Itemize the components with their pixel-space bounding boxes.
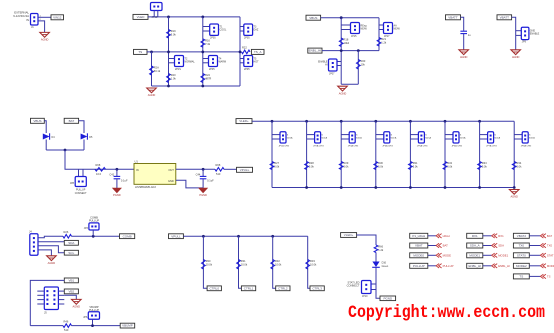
junction array top 1	[271, 120, 274, 123]
diode D4	[43, 133, 55, 139]
node netlabel J1	[341, 233, 357, 238]
wire R46 to netlabel	[72, 325, 121, 327]
wire network column 1	[203, 236, 207, 288]
svg-text:PULLUP: PULLUP	[89, 219, 99, 223]
svg-text:R30: R30	[378, 161, 383, 165]
svg-text:C44: C44	[196, 173, 201, 177]
svg-text:JP7A CHG: JP7A CHG	[486, 144, 497, 147]
svg-text:JP07: JP07	[329, 73, 335, 76]
node netlabel G2	[64, 240, 78, 245]
svg-text:50mA: 50mA	[391, 137, 397, 140]
junction A8	[201, 85, 204, 88]
svg-text:R30: R30	[206, 259, 211, 263]
diode D5	[81, 133, 93, 139]
svg-text:SDA_A: SDA_A	[470, 244, 480, 248]
svg-text:R19: R19	[171, 29, 176, 33]
svg-text:R32: R32	[447, 161, 452, 165]
svg-text:VLED+: VLED+	[239, 119, 249, 123]
svg-text:COMB: COMB	[123, 234, 132, 238]
svg-text:JP8: JP8	[70, 182, 75, 185]
junction B3	[357, 49, 360, 52]
wire array column 6	[444, 121, 446, 187]
svg-text:MODE: MODE	[547, 264, 554, 268]
transistor JP4A	[376, 134, 384, 136]
junction array gnd	[513, 186, 516, 189]
svg-text:MODE0: MODE0	[413, 253, 424, 257]
svg-text:2P05: 2P05	[244, 37, 250, 40]
svg-text:Copyright:www.eccn.com: Copyright:www.eccn.com	[348, 303, 545, 323]
junction A4	[167, 51, 170, 54]
node port col2 row1	[467, 233, 483, 238]
svg-text:10.0k: 10.0k	[310, 263, 317, 267]
svg-text:R26: R26	[64, 230, 69, 234]
svg-text:TX0: TX0	[547, 244, 553, 248]
wire network bus	[183, 235, 307, 237]
svg-text:R28: R28	[309, 161, 314, 165]
transistor JP5A	[410, 134, 418, 136]
svg-text:VBATT: VBATT	[448, 15, 458, 19]
svg-text:JP6: JP6	[83, 316, 88, 319]
wire bottom bus A	[152, 85, 241, 87]
wire array column 4	[375, 121, 377, 187]
wire top bus B	[321, 17, 379, 19]
node netlabel I4	[310, 286, 324, 291]
svg-text:PULLUP: PULLUP	[443, 264, 454, 268]
resistor R22	[242, 46, 251, 54]
svg-text:TX0: TX0	[519, 244, 525, 248]
junction array top 7	[478, 120, 481, 123]
svg-text:OUT: OUT	[168, 168, 174, 172]
svg-text:2P05: 2P05	[210, 37, 216, 40]
wire vertical A left x=151.5	[151, 52, 153, 86]
svg-text:TS: TS	[519, 275, 523, 279]
wire JP12 stubs	[153, 11, 155, 17]
junction A6	[239, 51, 242, 54]
svg-text:1.2k: 1.2k	[378, 248, 384, 252]
svg-text:CTRL1: CTRL1	[244, 286, 254, 290]
wire H1 around left	[30, 280, 64, 325]
transistor T2 NORMAL	[169, 58, 175, 60]
resistor R20	[167, 73, 177, 82]
wire J5 right pins	[58, 290, 64, 292]
svg-text:VBUS: VBUS	[33, 119, 41, 123]
svg-text:AGND: AGND	[48, 261, 56, 265]
svg-text:R66: R66	[378, 245, 383, 249]
svg-text:510: 510	[216, 172, 221, 176]
wire R26 to netlabel	[72, 235, 120, 237]
svg-text:10k4: 10k4	[344, 41, 350, 45]
svg-text:VBAT2: VBAT2	[517, 234, 527, 238]
junction D	[64, 149, 67, 152]
svg-text:VBAT: VBAT	[415, 244, 423, 248]
svg-text:JP9: JP9	[522, 41, 527, 44]
svg-text:R33: R33	[482, 161, 487, 165]
svg-text:JP2A CHG: JP2A CHG	[313, 144, 324, 147]
svg-text:AGND: AGND	[148, 93, 156, 97]
svg-text:CTRL0: CTRL0	[209, 286, 219, 290]
svg-text:TS: TS	[138, 50, 142, 54]
svg-text:JP4A CHG: JP4A CHG	[382, 144, 393, 147]
wire row2 bus A	[147, 51, 240, 53]
svg-text:COOL: COOL	[220, 29, 227, 32]
svg-text:HOT: HOT	[254, 61, 260, 64]
capacitor C9 1u	[460, 31, 471, 37]
transistor Q2 JP17	[379, 24, 384, 26]
svg-text:ENABLE: ENABLE	[530, 33, 540, 36]
pin numbers J1	[40, 15, 42, 21]
transistor T3	[240, 26, 244, 28]
svg-text:R31: R31	[413, 161, 418, 165]
wire array top bus	[252, 120, 514, 122]
junction B1	[340, 16, 343, 19]
svg-text:TS_A: TS_A	[254, 50, 262, 54]
wire array column 2	[306, 121, 308, 187]
junction array bottom 7	[478, 186, 481, 189]
svg-text:CTRL3: CTRL3	[312, 286, 322, 290]
junction array top 5	[409, 120, 412, 123]
capacitor C44	[202, 169, 204, 176]
svg-text:VIN12: VIN12	[53, 15, 62, 19]
svg-text:5.0k: 5.0k	[413, 165, 419, 169]
svg-text:NORMAL: NORMAL	[185, 61, 196, 64]
wire array bottom bus	[272, 187, 514, 189]
svg-text:5.0k: 5.0k	[309, 165, 315, 169]
svg-text:RX1: RX1	[498, 234, 504, 238]
svg-text:50mA: 50mA	[321, 137, 327, 140]
node netlabel I3	[276, 286, 290, 291]
svg-text:50mA: 50mA	[425, 137, 431, 140]
junction network 2	[237, 235, 240, 238]
node port col1 row4	[410, 263, 428, 268]
junction array bottom 2	[305, 186, 308, 189]
svg-text:PGND: PGND	[383, 296, 393, 300]
svg-text:0.1uF: 0.1uF	[121, 178, 128, 182]
junction array bottom 5	[409, 186, 412, 189]
node port col3 row2	[513, 243, 529, 248]
node VLED netlabel A1	[133, 14, 148, 19]
svg-text:50mA: 50mA	[287, 137, 293, 140]
svg-text:R29: R29	[344, 161, 349, 165]
node BAT netlabel D2	[64, 118, 78, 123]
svg-text:SDA: SDA	[68, 241, 74, 245]
svg-text:AGND: AGND	[339, 91, 347, 95]
svg-text:DAZ: DAZ	[254, 29, 259, 32]
resistor R23	[357, 59, 366, 69]
node netlabel I1	[207, 286, 221, 291]
wire regulator output	[176, 168, 215, 170]
node netlabel I2	[241, 286, 255, 291]
svg-text:JP1A CHG: JP1A CHG	[279, 144, 290, 147]
resistor R21	[377, 37, 387, 46]
junction array bottom 4	[374, 186, 377, 189]
svg-text:BAT: BAT	[443, 244, 449, 248]
svg-text:R23: R23	[361, 59, 366, 63]
svg-text:STAT0: STAT0	[517, 253, 526, 257]
transistor Q3 ENABLE JP07	[337, 61, 341, 63]
svg-text:5.0k: 5.0k	[171, 33, 177, 37]
svg-text:MODE: MODE	[443, 254, 452, 258]
wire R66 to LED	[375, 253, 377, 262]
transistor JP8A	[514, 134, 522, 136]
wire J4 pin2	[38, 241, 64, 243]
svg-text:2P1S: 2P1S	[175, 68, 181, 71]
svg-text:Green: Green	[382, 265, 389, 268]
svg-text:5.0k: 5.0k	[274, 165, 280, 169]
node port col1 row1	[410, 233, 428, 238]
resistor R19	[167, 29, 177, 38]
wire network column 4	[308, 236, 310, 288]
svg-text:JP15: JP15	[351, 35, 357, 38]
wire JP6 stub	[92, 319, 94, 325]
wire J4 pin3	[38, 246, 64, 253]
wire LED lower	[376, 267, 380, 298]
node VLED netlabel F	[236, 119, 252, 124]
wire down to regulator input	[65, 150, 134, 169]
junction array bottom 3	[340, 186, 343, 189]
svg-text:487R: 487R	[205, 77, 211, 81]
junction JP6	[91, 324, 94, 327]
node netlabel G1	[120, 234, 135, 239]
svg-text:1.0k: 1.0k	[171, 77, 177, 81]
node port col1 row3	[410, 253, 428, 258]
wire J4 pin4 to gnd	[38, 250, 51, 256]
svg-text:AGND: AGND	[512, 55, 520, 59]
svg-text:HIGH: HIGH	[443, 234, 450, 238]
svg-text:0.1uF: 0.1uF	[207, 178, 214, 182]
ground AGND block B	[338, 86, 348, 95]
node VPULL netlabel E	[237, 167, 253, 172]
transistor JP6A	[445, 134, 453, 136]
svg-text:PULLUP: PULLUP	[413, 264, 425, 268]
svg-text:R27: R27	[274, 161, 279, 165]
transistor T1 COOL	[203, 26, 210, 28]
svg-text:CONNECT: CONNECT	[347, 284, 360, 288]
ground AGND J1	[40, 32, 50, 41]
node port col2 row2	[467, 243, 483, 248]
svg-text:SCL: SCL	[68, 251, 74, 255]
wire J1 pin1 to VIN net	[38, 16, 51, 18]
resistor R33	[478, 161, 488, 169]
svg-text:CTRL2: CTRL2	[278, 286, 288, 290]
wire to output netlabel	[224, 168, 237, 170]
svg-text:VLED: VLED	[137, 15, 146, 19]
junction C44	[202, 168, 205, 171]
svg-text:R46: R46	[64, 319, 69, 323]
junction A7	[167, 85, 170, 88]
junction JP3	[92, 235, 95, 238]
svg-text:50mA: 50mA	[460, 137, 466, 140]
ground AGND array	[509, 190, 519, 199]
transistor T4 WARM	[203, 58, 209, 60]
junction B2	[340, 49, 343, 52]
wire LED column	[357, 235, 376, 245]
svg-text:R32: R32	[275, 259, 280, 263]
wire diode D4 branch	[44, 121, 46, 133]
connector JP10 STAT LED	[371, 283, 376, 285]
svg-text:JP10: JP10	[362, 295, 368, 298]
svg-text:R08: R08	[216, 163, 221, 167]
resistor R08 output	[215, 163, 224, 176]
node port col3 row5	[513, 274, 529, 279]
svg-text:50mA: 50mA	[529, 137, 535, 140]
wire vertical A x=168.5	[168, 17, 170, 86]
junction A3	[150, 51, 153, 54]
node VBUS netlabel B1	[306, 15, 321, 20]
svg-text:JP5A CHG: JP5A CHG	[417, 144, 428, 147]
svg-text:MODE2: MODE2	[516, 264, 527, 268]
resistor R34	[512, 161, 522, 169]
svg-text:BAT: BAT	[69, 119, 75, 123]
node netlabel A3 right	[251, 49, 264, 54]
svg-text:R20: R20	[171, 73, 176, 77]
svg-text:ENBL_HI: ENBL_HI	[498, 264, 510, 268]
ground AGND C1	[459, 50, 469, 59]
svg-text:LP2985AIM5-ADJ: LP2985AIM5-ADJ	[135, 185, 156, 189]
transistor JP1A	[272, 134, 280, 136]
svg-text:IN: IN	[26, 18, 29, 22]
node netlabel H3	[120, 323, 135, 328]
connector JP9 GND ENABLE	[516, 30, 522, 32]
svg-text:ENBL_HI: ENBL_HI	[468, 264, 481, 268]
svg-text:P1_HIGH: P1_HIGH	[412, 234, 425, 238]
connector JP8 PULLUP CONNECT	[78, 169, 80, 176]
node netlabel H2	[64, 289, 78, 294]
resistor R18	[339, 38, 349, 47]
wire C2	[512, 17, 516, 50]
junction network 3	[271, 235, 274, 238]
resistor R32	[271, 259, 282, 269]
transistor T5 HOT	[240, 58, 244, 60]
connector J5 2x4	[44, 287, 58, 310]
node port col2 row3	[467, 253, 483, 258]
wire C1	[461, 17, 464, 31]
svg-text:AGND: AGND	[460, 55, 468, 59]
wire vertical A x=240	[239, 17, 241, 86]
resistor R28	[305, 161, 315, 169]
svg-text:JP6A CHG: JP6A CHG	[452, 144, 463, 147]
svg-text:VB2: VB2	[69, 290, 75, 294]
capacitor C41	[116, 169, 118, 176]
svg-text:VLED+: VLED+	[344, 233, 354, 237]
svg-text:50mA: 50mA	[356, 137, 362, 140]
ground PGND C41	[113, 188, 122, 197]
resistor R30	[374, 161, 384, 169]
wire diode D5 lower	[83, 140, 85, 151]
power connector JP12	[151, 3, 163, 11]
resistor R66	[374, 245, 384, 253]
svg-text:PGND: PGND	[113, 193, 121, 197]
transistor JP2A	[307, 134, 315, 136]
svg-text:AGND: AGND	[510, 195, 518, 199]
wire vertical A x=202.8	[202, 17, 204, 86]
node port col3 row1	[513, 233, 529, 238]
node ENBL netlabel B2	[308, 48, 322, 53]
wire C1 lower	[463, 34, 465, 50]
svg-text:AGND: AGND	[41, 38, 49, 42]
svg-text:510: 510	[64, 328, 69, 332]
svg-text:5.0k: 5.0k	[344, 165, 350, 169]
node VBUS netlabel D1	[31, 118, 45, 123]
wire vertical B R23 column	[357, 51, 359, 85]
node VBATT netlabel C2	[497, 15, 512, 20]
svg-text:R18: R18	[344, 38, 349, 42]
svg-text:2P05: 2P05	[209, 68, 215, 71]
wire array column 3	[340, 121, 342, 187]
svg-text:PGND: PGND	[199, 193, 207, 197]
svg-text:7.4k: 7.4k	[205, 42, 211, 46]
svg-text:JP8A CHG: JP8A CHG	[521, 144, 532, 147]
junction array top 4	[374, 120, 377, 123]
resistor R32	[443, 161, 453, 169]
resistor R30	[202, 259, 213, 269]
resistor R31	[237, 259, 248, 269]
svg-text:R2A: R2A	[154, 66, 159, 70]
wire top bus A	[148, 16, 240, 18]
wire regulator gnd pin	[176, 180, 203, 188]
svg-text:TS: TS	[547, 275, 551, 279]
node port col3 row3	[513, 253, 529, 258]
connector JP3 COMB PULLUP	[89, 215, 99, 222]
svg-text:10.0k: 10.0k	[275, 263, 282, 267]
node netlabel J2	[380, 296, 396, 301]
ground AGND C2	[511, 50, 521, 59]
svg-text:VBUS: VBUS	[309, 16, 317, 20]
svg-text:2P05: 2P05	[244, 68, 250, 71]
wire J4 pin1 with resistor R26	[38, 236, 63, 237]
svg-text:HI: HI	[325, 64, 328, 67]
node VBATT netlabel C1	[446, 15, 461, 20]
ground AGND J4	[47, 256, 57, 265]
resistor R31	[409, 161, 419, 169]
wire JP3 stub	[92, 230, 94, 236]
svg-text:VBATT: VBATT	[500, 15, 510, 19]
svg-text:1.2k: 1.2k	[381, 41, 387, 45]
junction network 1	[202, 235, 205, 238]
node TS netlabel A2	[134, 49, 148, 54]
svg-text:MODE1: MODE1	[498, 254, 508, 258]
svg-text:R33: R33	[310, 259, 315, 263]
svg-text:BAT: BAT	[547, 234, 553, 238]
svg-text:JP3A CHG: JP3A CHG	[348, 144, 359, 147]
svg-text:WARM: WARM	[219, 61, 226, 64]
node port col3 row4	[513, 263, 529, 268]
junction A5	[201, 51, 204, 54]
svg-text:R22: R22	[242, 46, 247, 50]
svg-text:50mA: 50mA	[494, 137, 500, 140]
wire J1 pin2 to ground	[38, 21, 45, 33]
svg-text:ENBL_HI: ENBL_HI	[309, 49, 322, 53]
connector J4	[30, 234, 38, 255]
wire J5 left pins	[37, 290, 44, 292]
svg-text:IN: IN	[136, 168, 139, 172]
node port col2 row4	[467, 263, 483, 268]
resistor R29	[339, 161, 349, 169]
wire network column 2	[239, 236, 242, 288]
svg-text:R31: R31	[241, 259, 246, 263]
svg-text:JP3: JP3	[84, 227, 89, 230]
svg-text:GND: GND	[168, 179, 174, 183]
svg-text:AGND: AGND	[73, 305, 81, 309]
junction C41	[116, 168, 119, 171]
svg-text:NE/W: NE/W	[394, 28, 401, 31]
wire array column 8	[513, 121, 515, 187]
resistor R26	[63, 230, 72, 243]
svg-text:SDA: SDA	[498, 244, 504, 248]
ground AGND block A	[147, 88, 157, 97]
resistor R46	[63, 319, 72, 332]
wire bottom row H	[30, 325, 63, 327]
resistor R24	[201, 73, 211, 82]
